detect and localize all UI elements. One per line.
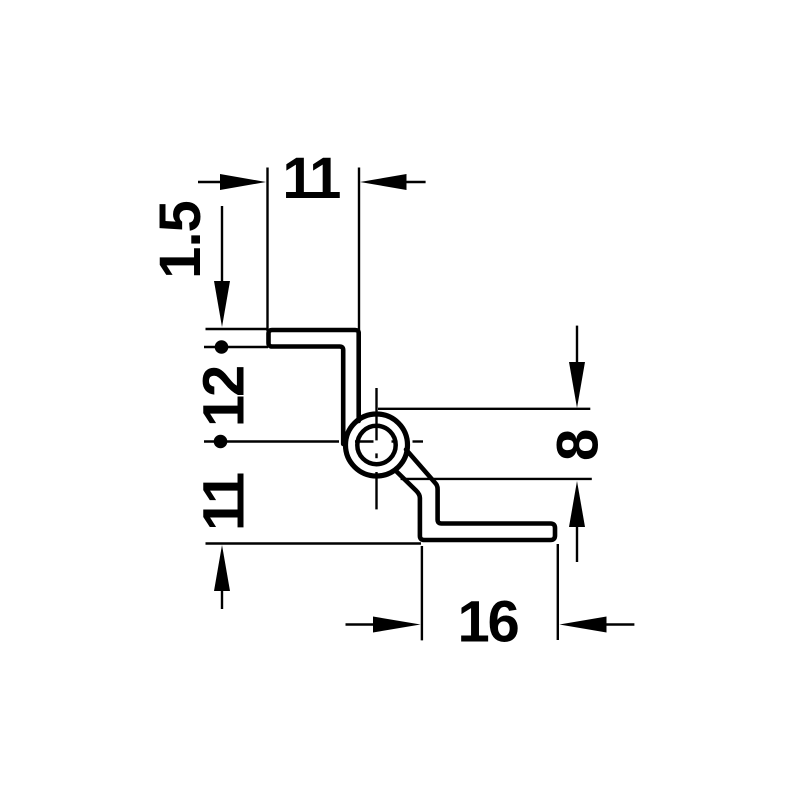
svg-text:1.5: 1.5 [148, 201, 213, 279]
svg-text:11: 11 [282, 146, 340, 211]
svg-text:8: 8 [546, 430, 611, 461]
svg-text:16: 16 [457, 590, 518, 655]
svg-text:11: 11 [192, 473, 257, 531]
svg-text:12: 12 [192, 367, 257, 427]
